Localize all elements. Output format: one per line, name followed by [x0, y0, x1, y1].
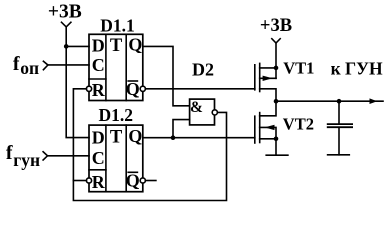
svg-text:VT2: VT2 [283, 115, 314, 134]
overline of Qbar pin D1.1 [128, 80, 137, 82]
pin R inversion circle D1.2 [86, 178, 91, 183]
VT2 substrate lead with arrow [260, 127, 276, 138]
node junction VT2 source / substrate [274, 137, 279, 142]
svg-text:D: D [92, 127, 105, 147]
VT2 channel bar [259, 113, 261, 143]
svg-text:к ГУН: к ГУН [331, 59, 383, 79]
svg-text:T: T [110, 127, 123, 147]
wire R reset feedback: NAND output to R of D1.1 and D1.2 [73, 89, 226, 201]
svg-text:f: f [13, 53, 20, 75]
output node line to k GUN [276, 100, 383, 102]
overline of Qbar pin D1.2 [128, 171, 137, 173]
flip-flop D1.1 [86, 15, 145, 100]
NAND output inversion circle [212, 110, 217, 115]
wire Qbar of D1.2 stub [145, 180, 156, 182]
svg-text:+3В: +3В [260, 16, 292, 36]
flip-flop body D1.2 with section dividers [89, 125, 143, 192]
svg-text:оп: оп [20, 58, 39, 78]
svg-text:f: f [6, 142, 13, 164]
power tap chevron left [62, 22, 71, 27]
svg-text:R: R [92, 172, 106, 192]
wire R of D1.2 to feedback vertical [73, 180, 86, 182]
wire f_op to C of D1.1 [48, 64, 89, 66]
pin Qbar inversion circle D1.1 [140, 86, 145, 91]
VT1 substrate lead with arrow [260, 77, 276, 79]
power +3V label left [48, 2, 82, 23]
ground bar under capacitor [328, 154, 350, 156]
output arrow head [370, 98, 378, 104]
label D2 [192, 60, 214, 80]
svg-text:D1.1: D1.1 [100, 15, 135, 35]
svg-text:Q: Q [128, 126, 142, 146]
capacitor C1 [328, 99, 352, 155]
wire +3V rail left vertical to D of D1.2 [66, 27, 89, 138]
input label f_op [13, 53, 39, 78]
svg-text:T: T [110, 36, 123, 56]
wire Q of D1.2 to VT2 gate [143, 137, 255, 139]
VT1 channel bar [259, 63, 261, 91]
pin R inversion circle D1.1 [86, 86, 91, 91]
wire f_gun to C of D1.2 [48, 155, 90, 157]
svg-text:Q: Q [126, 79, 140, 99]
VT1 gate bar [254, 65, 256, 90]
NAND gate D2 [190, 60, 218, 125]
transistor VT1 [255, 59, 315, 102]
node junction +3V rail / D1.1-D [64, 44, 69, 49]
svg-text:VT1: VT1 [283, 59, 314, 78]
node junction VT1 drain / +3V rail [274, 66, 279, 71]
VT2 drain lead top [260, 101, 276, 116]
pin Qbar inversion circle D1.2 [140, 178, 145, 183]
capacitor plates [328, 123, 352, 125]
flip-flop D1.2 [86, 105, 145, 192]
capacitor top lead [338, 101, 340, 123]
node junction Q2 / NAND-in2 [171, 135, 176, 140]
capacitor bottom lead [338, 128, 340, 155]
svg-text:Q: Q [126, 171, 140, 191]
wire NAND input 2 branch [173, 120, 190, 138]
VT2 gate bar [254, 116, 256, 143]
svg-text:C: C [92, 148, 105, 168]
pin labels D C R T Q Qbar of D1.2 [92, 126, 143, 192]
wire +3V rail right to VT1 drain and substrate [275, 43, 277, 78]
wire Qbar of D1.1 to VT1 gate [145, 88, 254, 90]
wire +3V branch to D of D1.1 [66, 45, 89, 47]
svg-text:гун: гун [13, 150, 40, 170]
NAND body D2 [190, 99, 215, 125]
svg-text:C: C [92, 55, 105, 75]
svg-text:+3В: +3В [48, 2, 82, 23]
connector chevron f_op [43, 61, 48, 69]
svg-text:D2: D2 [192, 60, 214, 80]
connector chevron f_gun [43, 152, 47, 160]
svg-text:D1.2: D1.2 [98, 105, 133, 125]
label D1.1 [100, 15, 135, 35]
svg-text:&: & [190, 99, 203, 116]
input label f_gun [6, 142, 40, 170]
node junction VT1/VT2 output [274, 99, 279, 104]
output label k GUN [331, 59, 383, 79]
VT1 drain lead top [260, 67, 276, 69]
wire Q of D1.1 to NAND input 1 [143, 46, 190, 105]
VT2 source lead bottom [260, 139, 276, 155]
power tap chevron right [272, 39, 280, 43]
ground bar under VT2 [266, 154, 288, 156]
ampersand symbol of D2 [190, 99, 203, 116]
svg-text:R: R [92, 80, 106, 100]
flip-flop body D1.1 with section dividers [89, 34, 143, 100]
svg-text:Q: Q [128, 35, 142, 55]
pin labels D C R T Q Qbar of D1.1 [92, 35, 143, 101]
VT1 source lead bottom [260, 89, 276, 101]
svg-text:D: D [92, 35, 105, 55]
label VT1 [283, 59, 314, 78]
label VT2 [283, 115, 314, 134]
power +3V label right [260, 16, 292, 36]
transistor VT2 [255, 101, 314, 155]
node junction capacitor / output line [337, 99, 342, 104]
label D1.2 [98, 105, 133, 125]
